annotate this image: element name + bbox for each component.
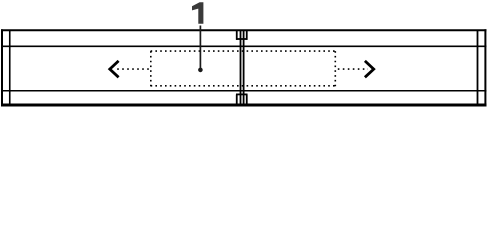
left arrow head xyxy=(110,61,119,77)
leader line for label 1 xyxy=(199,26,201,69)
right dotted arrow tail xyxy=(338,68,368,70)
joint seam right line xyxy=(243,31,245,106)
rail outer frame left edge xyxy=(1,29,3,106)
dotted zone rectangle xyxy=(151,51,337,87)
left end cap line xyxy=(9,30,11,106)
rail outer frame top edge xyxy=(1,29,487,31)
joint seam left line xyxy=(240,31,242,106)
leader end dot xyxy=(198,68,203,73)
rail inner bottom line xyxy=(1,90,487,92)
right arrow head xyxy=(365,61,374,77)
joint top clamp xyxy=(236,31,248,40)
right end cap line xyxy=(477,30,479,106)
rail outer frame bottom edge xyxy=(1,104,487,107)
left dotted arrow tail xyxy=(115,68,149,70)
rail outer frame right edge xyxy=(484,29,486,106)
label 1 xyxy=(192,2,203,24)
rail inner top line xyxy=(1,45,487,47)
joint bottom clamp xyxy=(236,94,248,105)
